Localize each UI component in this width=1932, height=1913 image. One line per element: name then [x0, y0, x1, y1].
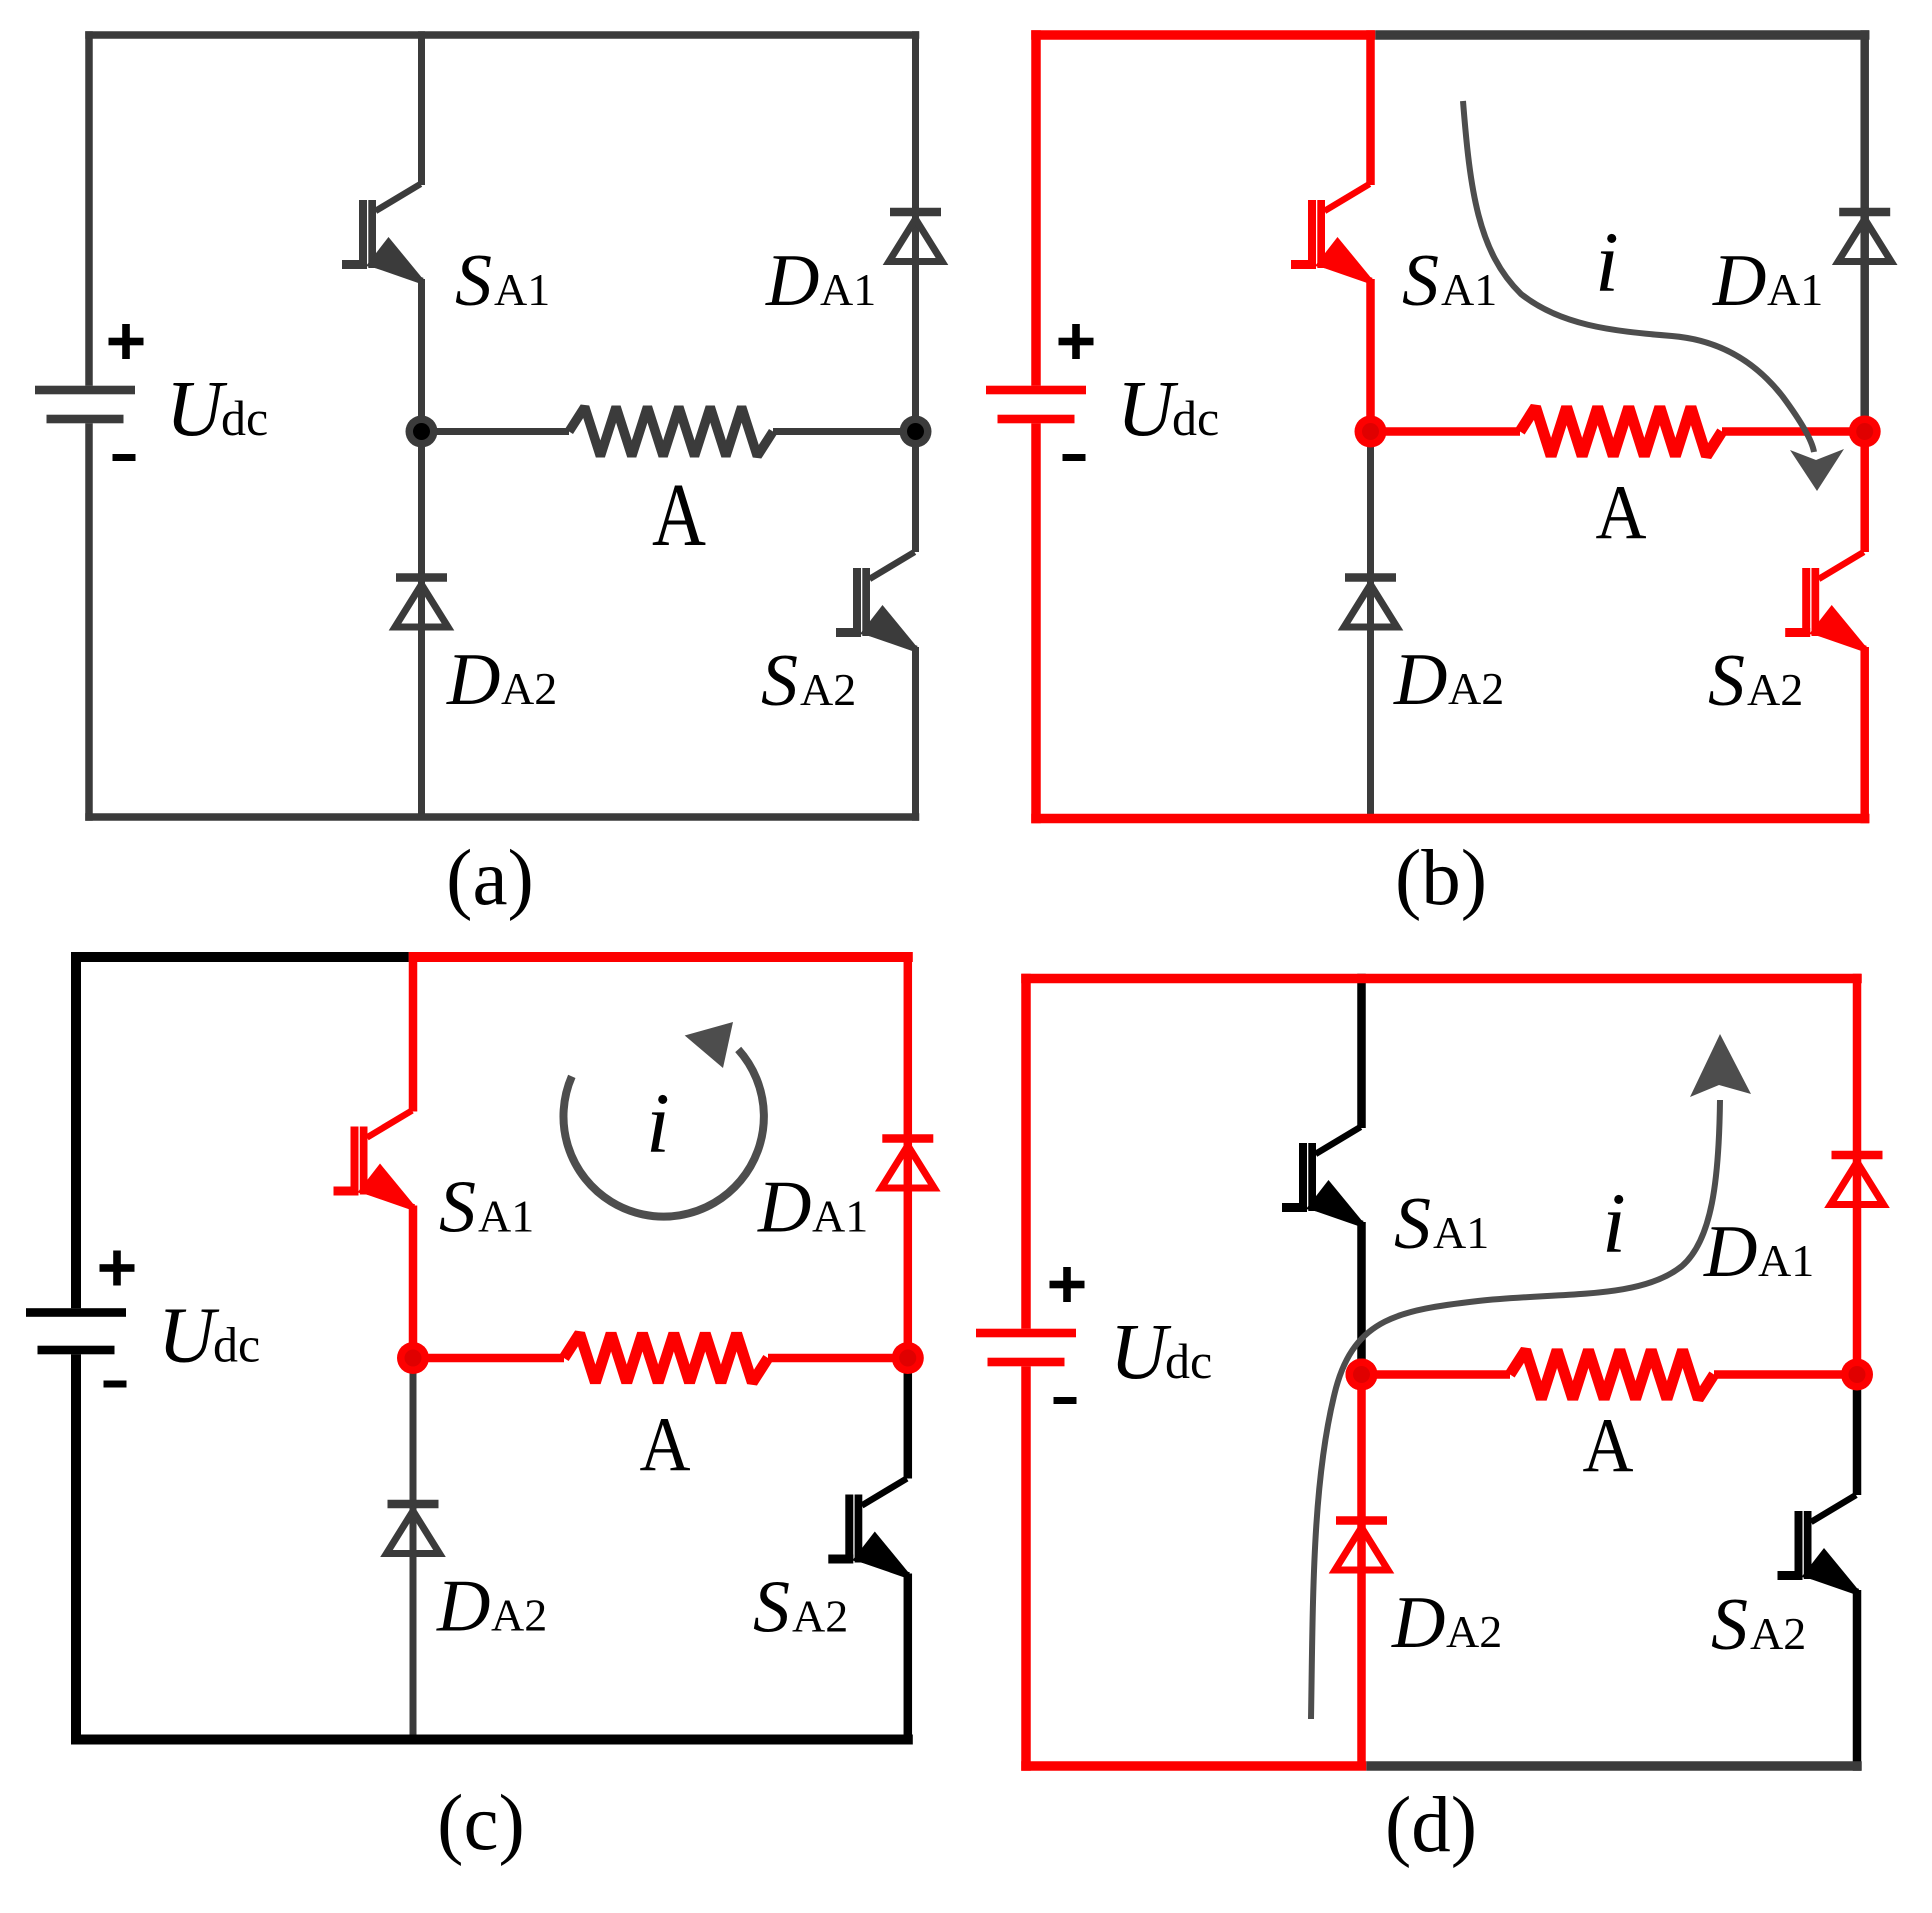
- wire (b) bottom border: [1031, 814, 1869, 824]
- wire (a) phase-leg upper branch: [418, 31, 425, 431]
- svg-text:D: D: [446, 639, 500, 721]
- wire (b) resistor to right node: [1722, 427, 1865, 436]
- wire (d) bottom border right segment: [1366, 1761, 1862, 1771]
- svg-text:A: A: [652, 466, 706, 565]
- wire (a) right border upper segment: [912, 31, 919, 431]
- svg-text:A2: A2: [1750, 1608, 1806, 1659]
- diode D_A1 (c): [881, 1134, 934, 1188]
- label D_A1 (c): [757, 1167, 868, 1249]
- transistor S_A2 (a): [836, 552, 917, 649]
- svg-text:A2: A2: [792, 1591, 848, 1642]
- svg-text:D: D: [436, 1566, 490, 1648]
- wire (a) resistor to right node: [773, 428, 916, 435]
- node right junction (c): [892, 1342, 924, 1374]
- wire (d) bottom border left segment: [1021, 1761, 1366, 1771]
- minus terminal (c): [104, 1381, 127, 1388]
- transistor S_A2 (b): [1785, 552, 1866, 649]
- wire (b) top border segment: [1031, 30, 1375, 40]
- svg-text:A1: A1: [494, 264, 550, 315]
- current path i arrow (b): [1463, 101, 1844, 491]
- diode D_A1 (a): [889, 208, 942, 262]
- svg-text:(d): (d): [1385, 1782, 1477, 1869]
- node A (left junction) (c): [397, 1342, 429, 1374]
- label U_dc (a): [166, 366, 268, 453]
- resistor A (a): [569, 407, 773, 456]
- diode D_A2 (d): [1335, 1516, 1388, 1570]
- wire (d) phase-leg upper branch: [1357, 974, 1366, 1375]
- label D_A2 (a): [446, 639, 557, 721]
- svg-text:S: S: [455, 240, 492, 322]
- label D_A2 (d): [1391, 1582, 1502, 1664]
- label A (load) (d): [1583, 1402, 1634, 1488]
- capacitor / dc source U_dc (c): [26, 1308, 126, 1354]
- svg-text:A1: A1: [1441, 264, 1497, 315]
- label S_A1 (c): [439, 1167, 534, 1249]
- node right junction (b): [1849, 416, 1881, 448]
- label A (load) (a): [652, 466, 706, 565]
- svg-text:A1: A1: [1758, 1235, 1814, 1286]
- svg-text:S: S: [439, 1167, 476, 1249]
- wire (c) right border upper segment: [904, 952, 913, 1358]
- transistor S_A2 (c): [828, 1479, 909, 1576]
- wire (c) right border lower segment: [904, 1358, 913, 1745]
- svg-text:D: D: [1391, 1582, 1445, 1664]
- svg-text:dc: dc: [1165, 1333, 1212, 1389]
- label U_dc (d): [1110, 1309, 1212, 1396]
- svg-text:U: U: [1117, 366, 1179, 453]
- wire (a) left border: [85, 31, 93, 821]
- plus terminal (b): [1059, 324, 1094, 359]
- label D_A1 (b): [1712, 240, 1823, 322]
- svg-text:A1: A1: [820, 264, 876, 315]
- minus terminal (d): [1054, 1397, 1077, 1404]
- label U_dc (c): [158, 1293, 260, 1380]
- label S_A2 (a): [761, 640, 856, 722]
- wire (d) resistor to right node: [1714, 1370, 1857, 1379]
- wire (c) node A to resistor: [413, 1354, 564, 1363]
- label A (load) (b): [1596, 469, 1647, 555]
- svg-text:A2: A2: [501, 663, 557, 714]
- node A (left junction) (d): [1346, 1359, 1378, 1391]
- svg-text:A: A: [640, 1401, 691, 1487]
- capacitor / dc source U_dc (a): [35, 386, 135, 424]
- diode D_A2 (b): [1344, 573, 1397, 627]
- wire (a) node A to resistor: [422, 428, 570, 435]
- label S_A2 (c): [753, 1567, 848, 1649]
- svg-text:A: A: [1583, 1402, 1634, 1488]
- svg-text:(a): (a): [446, 835, 534, 922]
- capacitor / dc source U_dc (b): [986, 386, 1086, 424]
- caption (b): [1395, 835, 1487, 922]
- resistor A (d): [1510, 1350, 1714, 1399]
- label D_A1 (a): [765, 240, 876, 322]
- svg-text:S: S: [1402, 240, 1439, 322]
- diode D_A2 (a): [395, 573, 448, 627]
- node A (left junction) (d) redrawn above current path: [1346, 1359, 1378, 1391]
- transistor S_A1 (d): [1282, 1127, 1363, 1224]
- wire (b) right border lower segment: [1860, 432, 1869, 824]
- node A (left junction) (b): [1355, 416, 1387, 448]
- svg-text:A1: A1: [478, 1191, 534, 1242]
- transistor S_A2 (d): [1778, 1495, 1859, 1592]
- svg-text:A: A: [1596, 469, 1647, 555]
- svg-text:U: U: [158, 1293, 220, 1380]
- wire (c) phase-leg lower branch: [410, 1358, 417, 1740]
- capacitor / dc source U_dc (d): [976, 1329, 1076, 1367]
- wire (c) left border: [71, 952, 81, 1745]
- wire (d) top border segment: [1021, 974, 1862, 984]
- svg-text:A2: A2: [491, 1590, 547, 1641]
- wire (c) top border segment: [71, 952, 409, 962]
- svg-text:S: S: [1708, 640, 1745, 722]
- node right junction (d): [1841, 1359, 1873, 1391]
- svg-text:D: D: [1393, 639, 1447, 721]
- svg-text:i: i: [646, 1075, 670, 1171]
- diode D_A2 (c): [387, 1500, 440, 1554]
- label S_A1 (a): [455, 240, 550, 322]
- svg-text:D: D: [757, 1167, 811, 1249]
- wire (b) phase-leg lower branch: [1367, 432, 1374, 819]
- wire (a) bottom border: [85, 813, 919, 821]
- label S_A2 (d): [1711, 1584, 1806, 1666]
- resistor A (c): [564, 1334, 768, 1383]
- svg-text:U: U: [1110, 1309, 1172, 1396]
- label S_A1 (d): [1394, 1183, 1489, 1265]
- wire (c) phase-leg upper branch: [409, 952, 418, 1358]
- wire (d) node A to resistor: [1362, 1370, 1511, 1379]
- node A (left junction) (a): [406, 416, 438, 448]
- svg-text:S: S: [761, 640, 798, 722]
- label i (d): [1602, 1175, 1626, 1271]
- transistor S_A1 (c): [334, 1111, 415, 1208]
- svg-text:D: D: [1703, 1211, 1757, 1293]
- caption (d): [1385, 1782, 1477, 1869]
- svg-text:dc: dc: [213, 1317, 260, 1373]
- diode D_A1 (b): [1838, 208, 1891, 262]
- wire (c) top border segment: [409, 952, 913, 962]
- caption (c): [437, 1780, 525, 1867]
- wire (a) top border segment: [85, 31, 919, 39]
- label S_A2 (b): [1708, 640, 1803, 722]
- svg-text:D: D: [1712, 240, 1766, 322]
- wire (b) left border: [1031, 30, 1041, 823]
- svg-text:A2: A2: [800, 664, 856, 715]
- svg-text:S: S: [753, 1567, 790, 1649]
- svg-text:A1: A1: [812, 1191, 868, 1242]
- wire (b) top border segment: [1375, 30, 1869, 40]
- wire (a) right border lower segment: [912, 432, 919, 821]
- plus terminal (a): [109, 324, 144, 359]
- svg-text:(b): (b): [1395, 835, 1487, 922]
- minus terminal (a): [113, 454, 136, 461]
- wire (d) phase-leg lower branch: [1357, 1375, 1366, 1767]
- svg-text:A1: A1: [1767, 264, 1823, 315]
- transistor S_A1 (a): [342, 184, 423, 281]
- label A (load) (c): [640, 1401, 691, 1487]
- wire (b) node A to resistor: [1371, 427, 1521, 436]
- wire (b) right border upper segment: [1860, 30, 1869, 431]
- caption (a): [446, 835, 534, 922]
- label S_A1 (b): [1402, 240, 1497, 322]
- svg-text:S: S: [1394, 1183, 1431, 1265]
- circulating current arrow (c): [563, 1022, 763, 1217]
- svg-text:A1: A1: [1433, 1207, 1489, 1258]
- wire (a) phase-leg lower branch: [418, 432, 425, 818]
- svg-text:A2: A2: [1446, 1606, 1502, 1657]
- svg-text:D: D: [765, 240, 819, 322]
- node right junction (a): [900, 416, 932, 448]
- resistor A (b): [1520, 407, 1722, 456]
- label U_dc (b): [1117, 366, 1219, 453]
- svg-text:S: S: [1711, 1584, 1748, 1666]
- svg-text:i: i: [1595, 214, 1619, 310]
- plus terminal (c): [100, 1251, 135, 1286]
- label i (b): [1595, 214, 1619, 310]
- svg-text:(c): (c): [437, 1780, 525, 1867]
- wire (c) resistor to right node: [768, 1354, 908, 1363]
- svg-text:A2: A2: [1448, 663, 1504, 714]
- svg-text:U: U: [166, 366, 228, 453]
- wire (c) bottom border: [71, 1735, 913, 1745]
- minus terminal (b): [1063, 454, 1086, 461]
- svg-text:dc: dc: [1172, 390, 1219, 446]
- plus terminal (d): [1050, 1267, 1085, 1302]
- wire (b) phase-leg upper branch: [1366, 30, 1375, 431]
- svg-text:i: i: [1602, 1175, 1626, 1271]
- diode D_A1 (d): [1831, 1151, 1884, 1205]
- svg-text:A2: A2: [1747, 664, 1803, 715]
- current path i arrow (d): [1311, 1034, 1751, 1719]
- label i (c): [646, 1075, 670, 1171]
- wire (d) right border lower segment: [1853, 1375, 1862, 1771]
- label D_A1 (d): [1703, 1211, 1814, 1293]
- wire (d) right border upper segment: [1853, 974, 1862, 1375]
- svg-text:dc: dc: [221, 390, 268, 446]
- wire (d) left border: [1021, 974, 1031, 1771]
- label D_A2 (b): [1393, 639, 1504, 721]
- transistor S_A1 (b): [1291, 184, 1372, 281]
- label D_A2 (c): [436, 1566, 547, 1648]
